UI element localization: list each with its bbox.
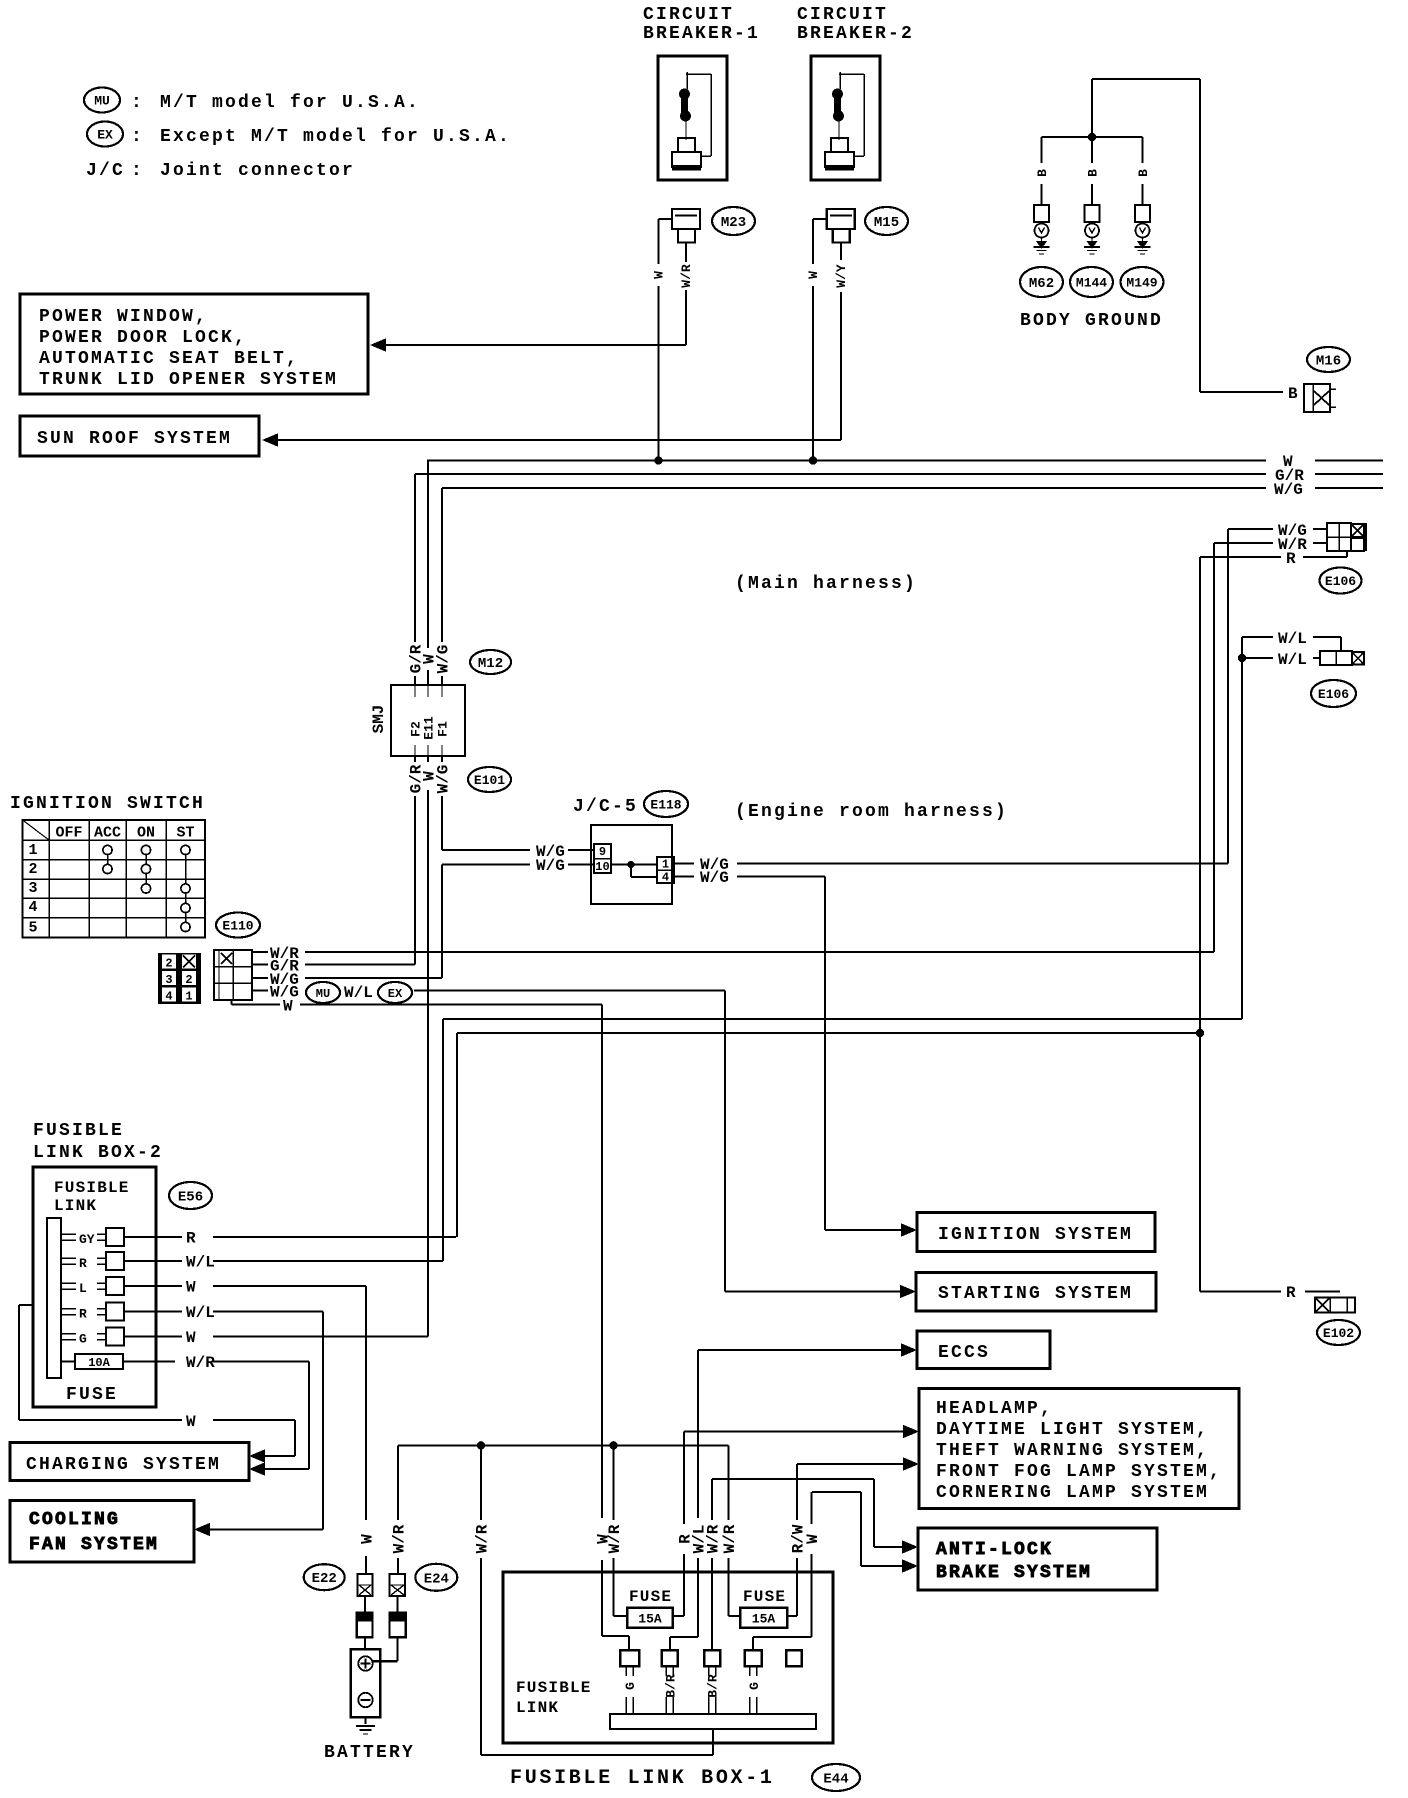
svg-text:M12: M12 xyxy=(478,656,503,672)
svg-text:W/L: W/L xyxy=(186,1304,215,1322)
svg-text:15A: 15A xyxy=(638,1612,662,1627)
svg-text:M144: M144 xyxy=(1076,276,1107,291)
svg-text:M/T model for U.S.A.: M/T model for U.S.A. xyxy=(160,93,420,113)
svg-text:FRONT FOG LAMP SYSTEM,: FRONT FOG LAMP SYSTEM, xyxy=(936,1462,1222,1482)
svg-text:W/R: W/R xyxy=(606,1524,624,1553)
svg-text:FUSIBLE: FUSIBLE xyxy=(516,1679,592,1697)
svg-text::: : xyxy=(131,93,144,113)
svg-text:POWER DOOR LOCK,: POWER DOOR LOCK, xyxy=(39,328,247,348)
svg-text:W/G: W/G xyxy=(434,765,452,794)
svg-text:R: R xyxy=(79,1307,87,1322)
svg-text:M23: M23 xyxy=(721,215,746,231)
svg-text:HEADLAMP,: HEADLAMP, xyxy=(936,1399,1053,1419)
svg-text:W/L: W/L xyxy=(186,1254,215,1272)
svg-text:G: G xyxy=(747,1682,762,1690)
svg-text:W/R: W/R xyxy=(390,1524,408,1553)
svg-text:10: 10 xyxy=(595,860,609,874)
svg-text:M62: M62 xyxy=(1029,276,1054,292)
svg-text:W/R: W/R xyxy=(473,1524,491,1553)
svg-text:ST: ST xyxy=(176,825,194,842)
svg-text:J/C: J/C xyxy=(86,161,125,181)
svg-text:W/L: W/L xyxy=(1278,651,1307,669)
svg-text:2: 2 xyxy=(185,973,192,987)
svg-text:MU: MU xyxy=(94,94,110,109)
svg-text:W/G: W/G xyxy=(700,869,729,887)
svg-text:9: 9 xyxy=(599,845,606,859)
svg-text:Except M/T model for U.S.A.: Except M/T model for U.S.A. xyxy=(160,127,511,147)
svg-text:FUSIBLE LINK BOX-1: FUSIBLE LINK BOX-1 xyxy=(510,1767,775,1790)
svg-text:GY: GY xyxy=(79,1232,95,1247)
svg-text:SMJ: SMJ xyxy=(370,705,388,734)
svg-text:4: 4 xyxy=(662,871,669,885)
svg-text:1: 1 xyxy=(662,858,669,872)
svg-text:ON: ON xyxy=(137,825,155,842)
svg-text:CIRCUIT: CIRCUIT xyxy=(797,5,888,25)
svg-text:M149: M149 xyxy=(1126,276,1157,291)
svg-text:J/C-5: J/C-5 xyxy=(573,797,638,817)
svg-text:FUSE: FUSE xyxy=(629,1588,672,1606)
svg-text:R: R xyxy=(79,1256,87,1271)
svg-text:4: 4 xyxy=(165,990,172,1004)
svg-text:B/R: B/R xyxy=(663,1674,678,1698)
svg-text:W/L: W/L xyxy=(1278,630,1307,648)
svg-text:W/Y: W/Y xyxy=(834,264,849,288)
svg-text:POWER WINDOW,: POWER WINDOW, xyxy=(39,307,208,327)
svg-text:E102: E102 xyxy=(1323,1326,1354,1341)
svg-text:AUTOMATIC SEAT BELT,: AUTOMATIC SEAT BELT, xyxy=(39,349,299,369)
svg-text:FUSE: FUSE xyxy=(743,1588,786,1606)
svg-text:1: 1 xyxy=(185,990,192,1004)
svg-text:M16: M16 xyxy=(1316,354,1341,370)
svg-text:E118: E118 xyxy=(650,798,681,813)
svg-text:3: 3 xyxy=(165,973,172,987)
svg-text:FUSE: FUSE xyxy=(66,1385,118,1405)
svg-text:E106: E106 xyxy=(1325,574,1356,589)
svg-text:B: B xyxy=(1035,169,1050,177)
svg-text:W/R: W/R xyxy=(186,1354,215,1372)
svg-text:DAYTIME LIGHT SYSTEM,: DAYTIME LIGHT SYSTEM, xyxy=(936,1420,1209,1440)
svg-text:E24: E24 xyxy=(424,1571,449,1587)
svg-text:R: R xyxy=(186,1230,196,1248)
svg-text:LINK: LINK xyxy=(516,1699,559,1717)
svg-text:FUSIBLE: FUSIBLE xyxy=(54,1179,130,1197)
svg-text:B: B xyxy=(1086,169,1101,177)
svg-text:Joint connector: Joint connector xyxy=(160,161,355,181)
svg-text:B: B xyxy=(1136,169,1151,177)
svg-text:BRAKE SYSTEM: BRAKE SYSTEM xyxy=(936,1563,1092,1583)
svg-text:W: W xyxy=(283,998,293,1016)
svg-text:W: W xyxy=(358,1534,376,1544)
svg-text:10A: 10A xyxy=(88,1356,110,1370)
svg-text:STARTING SYSTEM: STARTING SYSTEM xyxy=(938,1284,1133,1304)
svg-text:ECCS: ECCS xyxy=(938,1343,990,1363)
svg-text:(Main harness): (Main harness) xyxy=(735,574,917,594)
svg-text:E110: E110 xyxy=(222,919,253,934)
svg-text:FUSIBLE: FUSIBLE xyxy=(33,1121,124,1141)
svg-text:FAN SYSTEM: FAN SYSTEM xyxy=(29,1535,159,1555)
svg-text:W/R: W/R xyxy=(704,1524,722,1553)
svg-text:15A: 15A xyxy=(752,1612,776,1627)
svg-text:R: R xyxy=(1286,550,1296,568)
svg-text:E11: E11 xyxy=(422,716,437,740)
svg-text:E101: E101 xyxy=(474,773,505,788)
svg-text:LINK BOX-2: LINK BOX-2 xyxy=(33,1143,163,1163)
svg-text:W/G: W/G xyxy=(536,857,565,875)
svg-text:MU: MU xyxy=(316,987,330,1001)
svg-text:4: 4 xyxy=(28,899,37,916)
svg-text:E106: E106 xyxy=(1318,687,1349,702)
svg-text:G: G xyxy=(623,1682,638,1690)
svg-text:M15: M15 xyxy=(874,215,899,231)
svg-text::: : xyxy=(131,127,144,147)
svg-text:W: W xyxy=(804,1534,822,1544)
svg-text:ACC: ACC xyxy=(94,825,121,842)
svg-text:THEFT WARNING SYSTEM,: THEFT WARNING SYSTEM, xyxy=(936,1441,1209,1461)
svg-text:W: W xyxy=(186,1329,196,1347)
svg-text:W: W xyxy=(806,271,821,279)
svg-text:OFF: OFF xyxy=(55,825,82,842)
svg-text:W/L: W/L xyxy=(344,984,373,1002)
svg-text:IGNITION SYSTEM: IGNITION SYSTEM xyxy=(938,1225,1133,1245)
svg-text:CIRCUIT: CIRCUIT xyxy=(643,5,734,25)
svg-text:G: G xyxy=(79,1332,87,1347)
svg-text:3: 3 xyxy=(28,880,37,897)
svg-text:B/R: B/R xyxy=(706,1674,721,1698)
svg-text:CORNERING LAMP SYSTEM: CORNERING LAMP SYSTEM xyxy=(936,1483,1209,1503)
svg-text:(Engine room harness): (Engine room harness) xyxy=(735,802,1008,822)
svg-text:W/R: W/R xyxy=(679,264,694,288)
svg-text:BODY GROUND: BODY GROUND xyxy=(1020,311,1163,331)
svg-text:W: W xyxy=(652,271,667,279)
svg-text:ANTI-LOCK: ANTI-LOCK xyxy=(936,1540,1053,1560)
svg-text:1: 1 xyxy=(28,842,37,859)
svg-text:EX: EX xyxy=(388,987,403,1001)
svg-text:L: L xyxy=(79,1281,87,1296)
svg-text:W: W xyxy=(186,1413,196,1431)
svg-text:2: 2 xyxy=(165,957,172,971)
svg-text:W/G: W/G xyxy=(434,645,452,674)
svg-text:CHARGING SYSTEM: CHARGING SYSTEM xyxy=(26,1455,221,1475)
svg-text:TRUNK LID OPENER SYSTEM: TRUNK LID OPENER SYSTEM xyxy=(39,370,338,390)
svg-text:E22: E22 xyxy=(312,1571,337,1587)
svg-text:W/G: W/G xyxy=(1274,481,1303,499)
svg-text:W: W xyxy=(186,1279,196,1297)
svg-text:LINK: LINK xyxy=(54,1197,97,1215)
svg-text:SUN ROOF SYSTEM: SUN ROOF SYSTEM xyxy=(37,429,232,449)
svg-text::: : xyxy=(131,161,144,181)
svg-text:BREAKER-1: BREAKER-1 xyxy=(643,24,760,44)
svg-text:E56: E56 xyxy=(178,1190,203,1206)
svg-text:E44: E44 xyxy=(823,1772,848,1788)
svg-text:IGNITION SWITCH: IGNITION SWITCH xyxy=(10,794,205,814)
svg-text:W/R: W/R xyxy=(721,1524,739,1553)
svg-text:EX: EX xyxy=(97,128,113,143)
svg-text:5: 5 xyxy=(28,920,37,937)
svg-text:F1: F1 xyxy=(436,721,451,737)
svg-text:R: R xyxy=(1286,1284,1296,1302)
svg-text:BATTERY: BATTERY xyxy=(324,1743,415,1763)
svg-text:B: B xyxy=(1288,385,1298,403)
svg-text:BREAKER-2: BREAKER-2 xyxy=(797,24,914,44)
svg-text:COOLING: COOLING xyxy=(29,1510,120,1530)
svg-text:2: 2 xyxy=(28,861,37,878)
